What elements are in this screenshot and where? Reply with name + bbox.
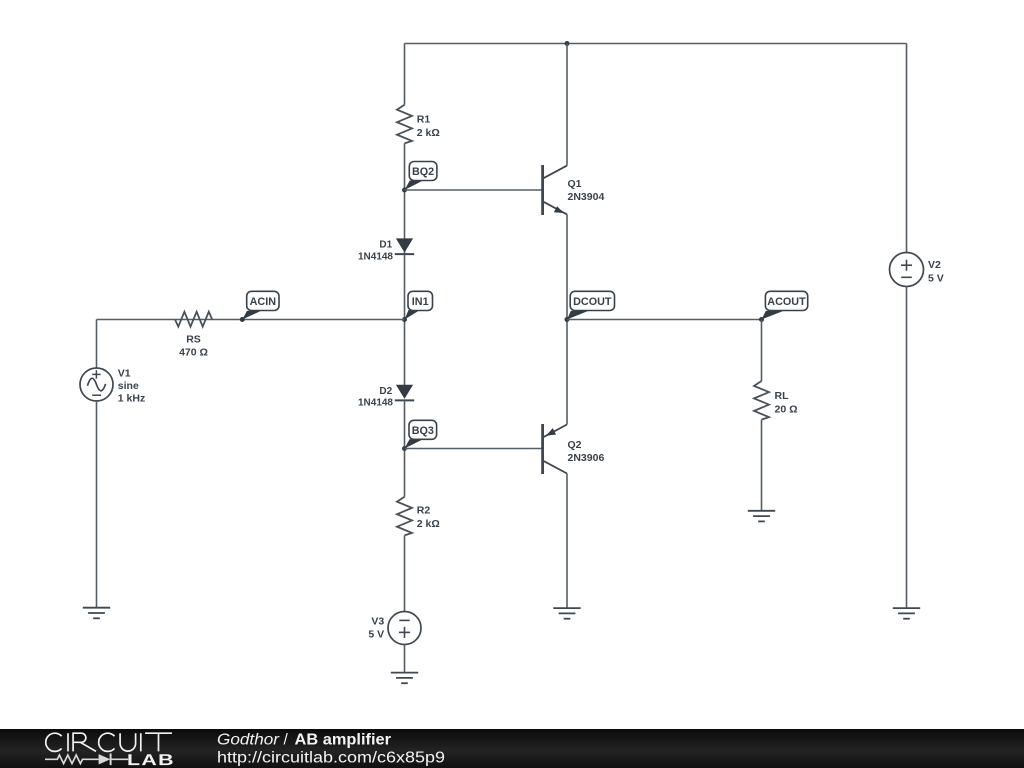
node IN1 label — [405, 291, 433, 319]
node DCOUT label — [567, 291, 615, 319]
ground V2 — [893, 608, 920, 619]
label Q1 value — [568, 178, 605, 203]
svg-text:sine: sine — [118, 380, 139, 392]
svg-text:20 Ω: 20 Ω — [775, 404, 798, 416]
svg-text:AB amplifier: AB amplifier — [295, 731, 392, 748]
transistor Q1 — [543, 165, 567, 215]
svg-text:BQ2: BQ2 — [412, 166, 434, 178]
node BQ3 label — [405, 420, 437, 448]
svg-text:2N3904: 2N3904 — [568, 191, 605, 203]
diode D1 — [395, 238, 414, 254]
svg-text:1N4148: 1N4148 — [358, 398, 393, 409]
label D2 value — [358, 386, 393, 409]
label R1 value — [417, 114, 440, 140]
svg-text:ACIN: ACIN — [250, 296, 277, 308]
svg-text:2N3906: 2N3906 — [568, 452, 605, 464]
svg-text:5 V: 5 V — [928, 273, 944, 285]
ground Q2 — [553, 608, 580, 619]
svg-text:V1: V1 — [118, 368, 131, 380]
ground V3 — [391, 673, 418, 684]
wire RL to ground — [761, 420, 763, 511]
svg-text:D1: D1 — [379, 240, 392, 251]
svg-text:RL: RL — [775, 390, 790, 402]
svg-text:1 kHz: 1 kHz — [118, 393, 145, 405]
voltage source V1 — [80, 320, 113, 608]
svg-text:V2: V2 — [928, 259, 941, 271]
node DCOUT dot — [565, 317, 570, 322]
node ACOUT dot — [759, 317, 764, 322]
node ACIN label — [242, 291, 279, 319]
resistor RL — [754, 381, 769, 420]
node junction top — [565, 41, 570, 46]
label V1 value — [118, 368, 145, 405]
svg-text:http://circuitlab.com/c6x85p9: http://circuitlab.com/c6x85p9 — [217, 750, 445, 767]
node ACIN dot — [240, 317, 245, 322]
wire ACOUT to RL — [761, 320, 763, 382]
transistor Q2 — [543, 424, 567, 474]
svg-text:1N4148: 1N4148 — [358, 251, 393, 262]
label R2 value — [417, 505, 440, 531]
wire Q1 emitter to Q2 emitter — [566, 214, 568, 424]
svg-text:/: / — [284, 731, 289, 748]
node BQ3 dot — [402, 446, 407, 451]
svg-text:R2: R2 — [417, 505, 431, 517]
resistor RS — [175, 312, 212, 327]
node IN1 dot — [402, 317, 407, 322]
logo resistor-diode line — [45, 753, 128, 765]
label V3 value — [368, 616, 384, 641]
footer author title — [217, 731, 445, 766]
wire top rail — [405, 43, 907, 45]
resistor R1 — [397, 105, 412, 144]
wire DCOUT to ACOUT — [567, 319, 762, 321]
node ACOUT label — [762, 291, 808, 319]
label RS value — [179, 334, 208, 359]
svg-text:IN1: IN1 — [412, 296, 429, 308]
svg-text:Q2: Q2 — [568, 439, 582, 451]
wire R1 to BQ2 — [404, 143, 406, 385]
label V2 value — [928, 259, 944, 285]
svg-text:DCOUT: DCOUT — [573, 296, 612, 308]
svg-text:2 kΩ: 2 kΩ — [417, 127, 440, 139]
node BQ2 label — [405, 162, 437, 191]
label Q2 value — [568, 439, 605, 464]
voltage source V3 — [388, 612, 421, 673]
wire D2 to R2 — [404, 400, 406, 496]
svg-text:ACOUT: ACOUT — [767, 296, 806, 308]
svg-text:Godthor: Godthor — [217, 731, 280, 748]
node BQ2 dot — [402, 188, 407, 193]
svg-text:R1: R1 — [417, 114, 431, 126]
svg-text:470 Ω: 470 Ω — [179, 347, 208, 359]
resistor R2 — [397, 497, 412, 536]
wire Q2 collector to ground — [566, 474, 568, 609]
svg-text:2 kΩ: 2 kΩ — [417, 518, 440, 530]
wire R1 branch top — [404, 44, 406, 105]
logo CIRCUIT wordmark — [46, 733, 172, 751]
label D1 value — [358, 240, 393, 263]
svg-text:RS: RS — [186, 334, 201, 346]
ground V1 — [83, 608, 110, 619]
wire Q1 collector — [566, 44, 568, 166]
ground RL — [748, 511, 775, 522]
svg-text:D2: D2 — [379, 386, 392, 397]
svg-text:5 V: 5 V — [368, 629, 384, 641]
diode D2 — [395, 385, 414, 401]
wire BQ3 to Q2 base — [405, 448, 542, 450]
wire input rail — [97, 319, 405, 321]
wire R2 to V3 — [404, 535, 406, 611]
logo LAB wordmark — [128, 754, 172, 765]
svg-text:V3: V3 — [371, 616, 384, 628]
svg-text:Q1: Q1 — [568, 178, 582, 190]
wire BQ2 to Q1 base — [405, 189, 542, 191]
label RL value — [775, 390, 798, 416]
voltage source V2 — [890, 44, 924, 609]
svg-text:BQ3: BQ3 — [412, 425, 434, 437]
